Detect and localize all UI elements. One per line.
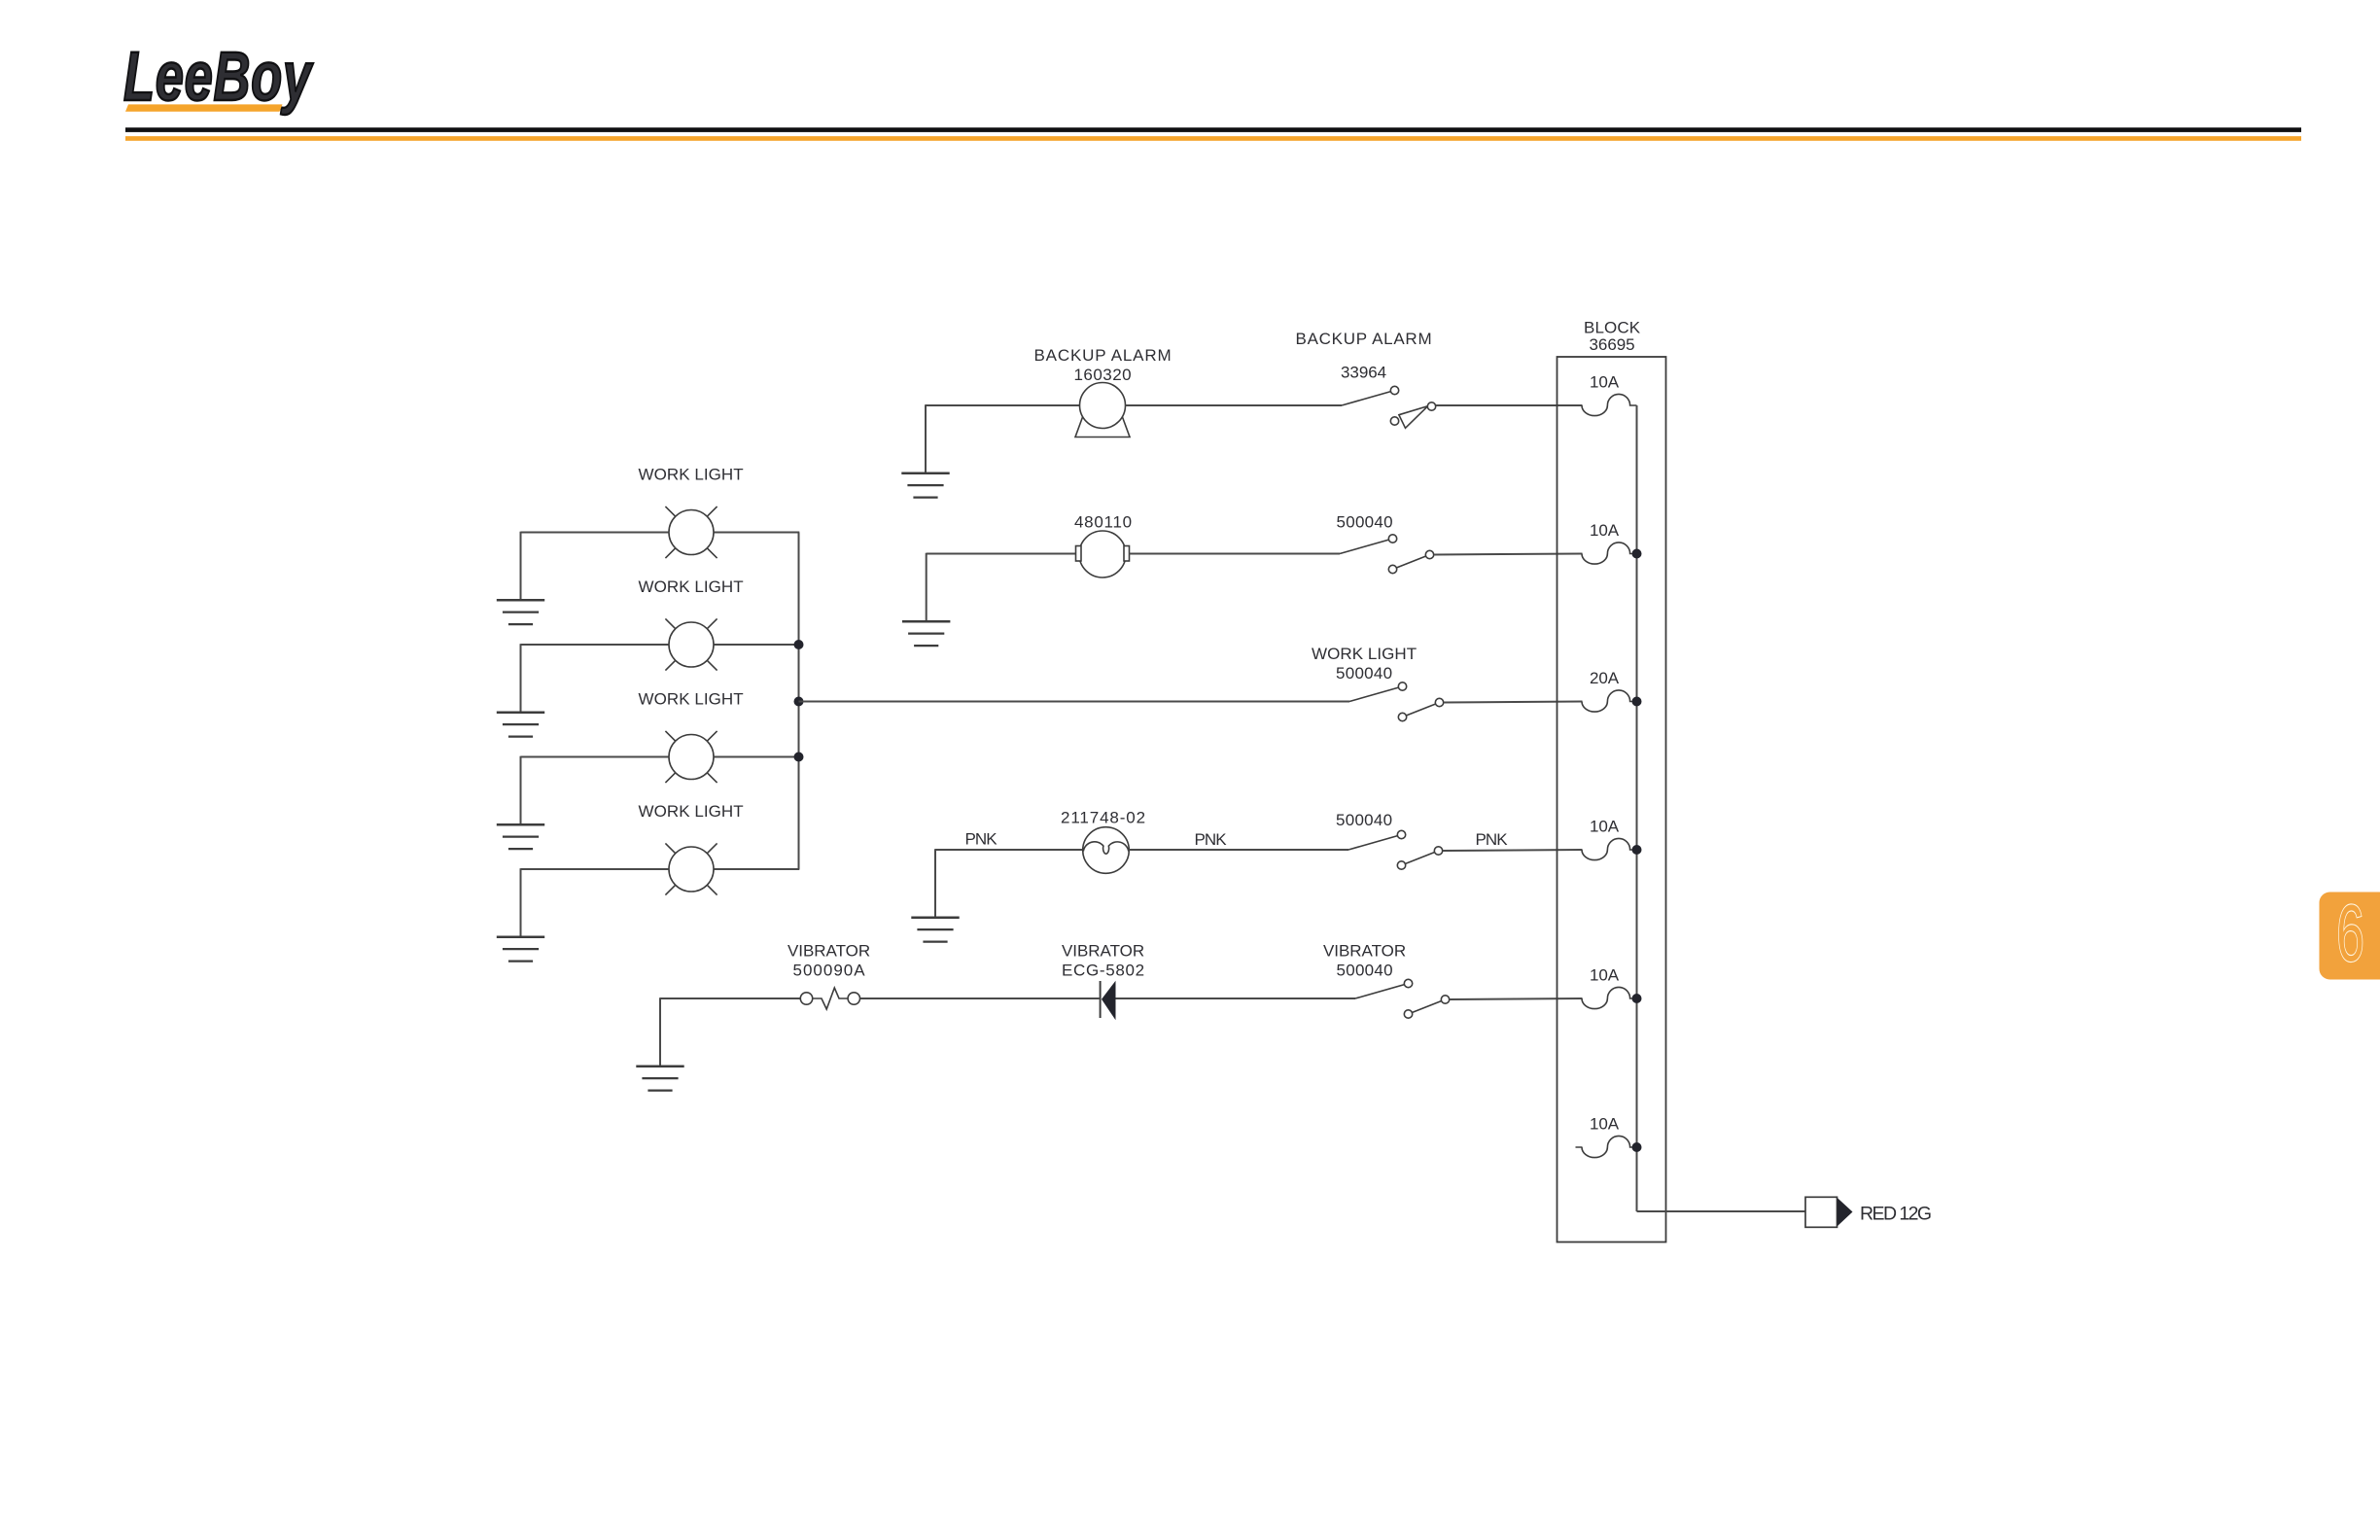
svg-text:500090A: 500090A xyxy=(793,962,866,980)
svg-text:WORK LIGHT: WORK LIGHT xyxy=(639,690,745,709)
wire 480110 to switch xyxy=(1130,553,1341,555)
svg-text:33964: 33964 xyxy=(1341,364,1387,382)
switch backup alarm 33964 xyxy=(1342,386,1436,428)
svg-text:500040: 500040 xyxy=(1337,513,1394,532)
svg-text:10A: 10A xyxy=(1590,818,1620,836)
svg-text:10A: 10A xyxy=(1590,521,1620,540)
fuse 10A row5 xyxy=(1582,987,1637,1008)
ground backup alarm xyxy=(901,473,949,498)
svg-text:BLOCK: BLOCK xyxy=(1584,319,1641,337)
junction work light out xyxy=(794,697,804,707)
wire 480110 to fuse xyxy=(1434,554,1583,555)
fuse 10A row1 xyxy=(1582,394,1637,415)
wire work light 3 right xyxy=(714,756,799,758)
svg-text:WORK LIGHT: WORK LIGHT xyxy=(639,466,745,484)
junction fuse row3 xyxy=(1632,697,1642,707)
svg-text:36695: 36695 xyxy=(1590,335,1636,354)
svg-text:6: 6 xyxy=(2336,887,2364,978)
header rule orange xyxy=(125,136,2301,141)
wire fuse bus xyxy=(1636,405,1638,1211)
junction work light 2 xyxy=(794,640,804,649)
wire work light 2 left xyxy=(521,644,670,646)
fuse 10A row2 xyxy=(1582,542,1637,564)
svg-text:PNK: PNK xyxy=(1476,830,1509,849)
svg-text:WORK LIGHT: WORK LIGHT xyxy=(639,802,745,821)
wire 480110 left xyxy=(927,553,1076,555)
LeeBoy logo xyxy=(123,38,314,116)
lamp work light 3 xyxy=(665,731,717,783)
ground work light 1 xyxy=(497,600,544,624)
wire work light 2 right xyxy=(714,644,799,646)
fuse 10A row4 xyxy=(1582,838,1637,859)
svg-text:500040: 500040 xyxy=(1336,811,1393,829)
logo orange underline xyxy=(125,104,283,111)
svg-text:10A: 10A xyxy=(1590,1115,1620,1134)
ground 480110 xyxy=(902,621,950,646)
ground work light 2 xyxy=(497,713,544,737)
ground work light 4 xyxy=(497,937,544,962)
wire work light bus xyxy=(798,533,800,870)
backup alarm 160320 horn xyxy=(1075,383,1130,437)
svg-text:PNK: PNK xyxy=(965,830,998,849)
switch 500040 row2 xyxy=(1340,535,1434,574)
wire bus to connector xyxy=(1637,1210,1806,1212)
wire vibrator drop xyxy=(659,997,661,1067)
wire work light out xyxy=(799,701,1350,703)
wire work light 4 right xyxy=(714,868,799,870)
wire vibrator to fuse xyxy=(1450,998,1583,999)
junction fuse row4 xyxy=(1632,845,1642,855)
ground 211748-02 xyxy=(911,918,959,942)
svg-text:480110: 480110 xyxy=(1074,513,1133,532)
wire 480110 drop xyxy=(926,553,927,622)
wire backup alarm to switch xyxy=(1126,404,1343,406)
svg-text:500040: 500040 xyxy=(1337,962,1394,980)
wire work light 3 drop xyxy=(520,756,522,825)
junction fuse row5 xyxy=(1632,994,1642,1003)
wire pnk to fuse xyxy=(1443,850,1583,851)
wire work light 1 right xyxy=(714,532,799,534)
svg-text:BACKUP ALARM: BACKUP ALARM xyxy=(1296,330,1433,348)
svg-text:PNK: PNK xyxy=(1195,830,1228,849)
wire work light 1 left xyxy=(521,532,670,534)
page tab 6 xyxy=(2320,887,2380,979)
wire work light 4 drop xyxy=(520,868,522,937)
wire pnk drop xyxy=(934,849,936,918)
wire work light to fuse xyxy=(1444,702,1583,703)
junction work light 3 xyxy=(794,752,804,762)
wire vibrator to switch xyxy=(1116,997,1356,999)
breaker 500090A xyxy=(800,988,859,1009)
wire work light 3 left xyxy=(521,756,670,758)
diode ECG-5802 xyxy=(1101,981,1116,1021)
fuse 10A spare xyxy=(1576,1136,1637,1157)
wire vibrator middle xyxy=(860,997,1100,999)
junction fuse row2 xyxy=(1632,549,1642,559)
wire pnk middle xyxy=(1129,849,1348,851)
wire backup alarm drop xyxy=(925,404,927,473)
junction fuse spare xyxy=(1632,1142,1642,1152)
ground vibrator xyxy=(636,1067,683,1091)
svg-text:ECG-5802: ECG-5802 xyxy=(1062,962,1145,980)
switch 500040 vibrator xyxy=(1355,979,1450,1018)
fuse 20A row3 xyxy=(1582,690,1637,712)
svg-text:LeeBoy: LeeBoy xyxy=(123,38,314,116)
lamp work light 4 xyxy=(665,843,717,894)
svg-text:BACKUP ALARM: BACKUP ALARM xyxy=(1034,346,1172,365)
wire pnk left xyxy=(935,849,1083,851)
svg-text:VIBRATOR: VIBRATOR xyxy=(1323,942,1407,961)
lamp 211748-02 xyxy=(1083,827,1130,874)
svg-text:211748-02: 211748-02 xyxy=(1061,809,1146,827)
connector RED 12G xyxy=(1805,1197,1853,1227)
svg-text:WORK LIGHT: WORK LIGHT xyxy=(1312,645,1417,663)
svg-text:160320: 160320 xyxy=(1074,366,1133,384)
wire backup alarm left xyxy=(926,404,1080,406)
svg-text:VIBRATOR: VIBRATOR xyxy=(1062,942,1145,961)
svg-text:VIBRATOR: VIBRATOR xyxy=(787,942,871,961)
switch 500040 pnk xyxy=(1348,830,1443,869)
svg-text:RED 12G: RED 12G xyxy=(1860,1204,1933,1225)
ground work light 3 xyxy=(497,824,544,849)
wire work light 1 drop xyxy=(520,532,522,601)
wire vibrator left xyxy=(660,997,800,999)
lamp work light 2 xyxy=(665,618,717,670)
svg-text:500040: 500040 xyxy=(1336,664,1393,682)
header rule black xyxy=(125,127,2301,132)
wire backup alarm to fuse xyxy=(1436,404,1583,406)
svg-text:20A: 20A xyxy=(1590,669,1620,687)
fuse block 36695 xyxy=(1557,357,1666,1242)
svg-text:10A: 10A xyxy=(1590,966,1620,985)
wire work light 2 drop xyxy=(520,644,522,713)
svg-text:WORK LIGHT: WORK LIGHT xyxy=(639,577,745,596)
svg-text:10A: 10A xyxy=(1590,373,1620,392)
switch 500040 work light xyxy=(1349,682,1444,721)
motor 480110 xyxy=(1076,531,1130,577)
lamp work light 1 xyxy=(665,507,717,558)
wire work light 4 left xyxy=(521,868,670,870)
